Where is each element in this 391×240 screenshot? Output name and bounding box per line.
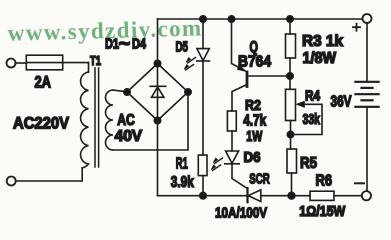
wire bridge top to rail [157,19,159,64]
wire top rail [158,18,363,20]
transformer core [95,68,99,167]
wire R3 branch [289,19,291,34]
wire plus to battery [366,23,368,82]
svg-text:3.9k: 3.9k [171,174,194,191]
resistor R6 [310,191,334,200]
svg-text:R1: R1 [176,156,188,173]
SCR symbol [246,188,248,202]
node bridge right [185,89,191,95]
svg-text:33k: 33k [303,112,321,128]
svg-text:1/8W: 1/8W [303,50,337,67]
potentiometer R4 [286,89,296,120]
node bridge left [124,89,130,95]
node R5 bottom [288,192,295,199]
battery 36V [355,82,378,107]
resistor R3 [286,34,296,58]
svg-text:D5: D5 [176,40,189,56]
wire fuse feed [16,62,27,64]
bridge inner diode [157,65,159,119]
resistor R1 [198,155,207,176]
svg-text:R5: R5 [300,155,317,172]
wire bridge bottom to rail [157,121,159,196]
resistor R5 [287,149,297,173]
D5 arrows [184,58,195,71]
svg-text:4.7k: 4.7k [243,112,266,129]
svg-text:2A: 2A [35,73,52,91]
wire R2 to D6 [231,131,233,151]
node R1 bottom [200,192,207,199]
transistor Q B764 bar [246,72,249,87]
node R4 bottom [287,131,293,137]
terminal plus [363,14,372,23]
bridge rectifier D1~D4 diamond [127,64,188,121]
svg-text:AC220V: AC220V [13,114,69,132]
node R3 top [287,16,293,22]
fuse 2A [26,55,62,70]
svg-text:R2: R2 [245,97,261,114]
LED D6 [226,151,239,163]
transformer T1 primary [81,72,89,168]
svg-text:40V: 40V [115,128,143,145]
wire battery to minus [366,107,368,191]
node bridge bottom [154,117,160,123]
wire R1 to rail [202,176,204,196]
resistor R2 [227,111,236,131]
wire R3 to R4 [289,58,291,89]
R4 wiper arrow [291,104,322,134]
node bridge top [154,60,160,66]
node Q base [287,73,293,79]
LED D5 [197,49,209,61]
wire R4 to R5 [290,121,292,150]
terminal input bottom [7,177,16,186]
wire bottom rail mid [261,195,310,197]
transformer T1 secondary [106,90,113,150]
svg-text:R6: R6 [316,172,333,189]
terminal input top [7,59,16,68]
svg-text:36V: 36V [331,94,352,111]
node Q emitter top [228,16,234,22]
wire D5 branch upper [202,19,204,49]
node D5 top [200,16,206,22]
svg-text:~: ~ [119,33,131,55]
D6 arrows [211,158,222,171]
Q emitter arrow [237,66,246,72]
wire primary bottom [16,168,82,181]
wire secondary top to bridge [113,90,127,92]
wire primary top [88,63,90,72]
svg-text:B764: B764 [238,54,271,71]
svg-text:R4: R4 [305,88,320,104]
wire secondary bottom to bridge right [113,92,188,150]
svg-text:SCR: SCR [249,170,270,187]
wire bottom rail right [334,195,362,197]
wire Q emitter [232,19,246,71]
wire R5 to rail [291,173,293,196]
Q base wire [247,75,290,77]
terminal minus [362,191,371,200]
svg-text:D6: D6 [244,149,261,166]
svg-text:R3 1k: R3 1k [302,33,343,50]
svg-text:T1: T1 [90,53,101,68]
svg-text:1Ω/15W: 1Ω/15W [299,203,346,220]
svg-text:AC: AC [117,112,135,129]
wire D5 to R1 [202,61,204,155]
svg-text:D1: D1 [105,36,119,52]
wire fuse to transformer [26,62,88,64]
svg-text:10A/100V: 10A/100V [215,205,267,222]
wire bottom rail left [158,195,248,197]
minus sign [355,182,364,184]
wire D6 to SCR gate [232,164,248,189]
Q collector [232,85,247,112]
plus sign [353,24,360,31]
svg-text:D4: D4 [132,36,146,52]
svg-text:1W: 1W [246,129,262,145]
